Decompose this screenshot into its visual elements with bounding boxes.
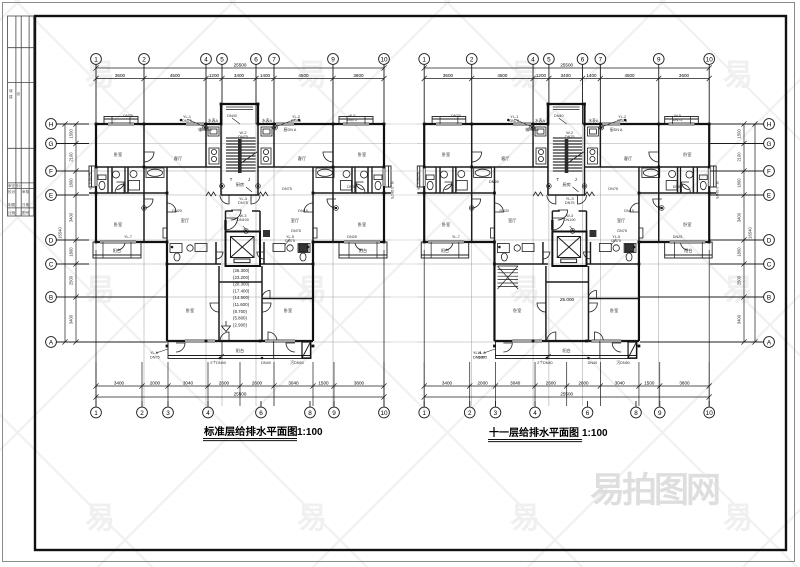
svg-text:(17.400): (17.400)	[233, 288, 250, 293]
svg-text:A: A	[49, 339, 54, 346]
svg-text:16540: 16540	[58, 227, 63, 239]
watermark glyphs	[85, 59, 753, 535]
level list	[222, 268, 250, 332]
svg-text:(26.300): (26.300)	[233, 268, 250, 273]
svg-text:F: F	[49, 168, 53, 175]
svg-text:B: B	[767, 294, 771, 301]
svg-text:十一层给排水平面图: 十一层给排水平面图	[489, 426, 579, 439]
svg-text:H: H	[49, 121, 54, 128]
svg-text:1:100: 1:100	[297, 427, 323, 438]
svg-text:16540: 16540	[748, 227, 753, 239]
svg-text:DN20: DN20	[489, 180, 499, 184]
svg-text:易: 易	[723, 59, 753, 92]
svg-text:2500: 2500	[69, 275, 74, 285]
svg-text:(5.800): (5.800)	[233, 316, 247, 321]
svg-text:1500: 1500	[737, 128, 742, 138]
svg-text:1500: 1500	[69, 128, 74, 138]
svg-text:(14.500): (14.500)	[233, 295, 250, 300]
svg-text:易: 易	[723, 502, 753, 535]
svg-text:(11.600): (11.600)	[233, 302, 250, 307]
svg-text:E: E	[49, 192, 53, 199]
svg-text:G: G	[49, 141, 54, 148]
svg-text:易: 易	[85, 502, 115, 535]
svg-text:H: H	[767, 121, 772, 128]
svg-text:易拍图网: 易拍图网	[590, 471, 719, 510]
svg-text:25.000: 25.000	[560, 297, 574, 302]
svg-text:比例: 比例	[8, 210, 16, 215]
svg-text:审核: 审核	[22, 189, 30, 194]
svg-text:3400: 3400	[737, 314, 742, 324]
left row bubbles	[46, 119, 167, 348]
svg-text:易: 易	[85, 274, 115, 307]
svg-text:3400: 3400	[69, 212, 74, 222]
svg-text:审定设计: 审定设计	[8, 183, 23, 188]
svg-text:2100: 2100	[69, 152, 74, 162]
svg-text:图号: 图号	[22, 210, 30, 215]
svg-text:B: B	[49, 294, 53, 301]
svg-text:(20.300): (20.300)	[233, 282, 250, 287]
svg-text:C: C	[49, 261, 54, 268]
svg-text:(23.200): (23.200)	[233, 275, 250, 280]
svg-text:(2.900): (2.900)	[233, 322, 247, 327]
svg-text:A: A	[767, 339, 772, 346]
svg-text:3400: 3400	[737, 212, 742, 222]
svg-text:2500: 2500	[737, 275, 742, 285]
title block strip	[8, 16, 34, 216]
gap grid stubs	[389, 124, 419, 342]
svg-text:城: 城	[9, 88, 13, 93]
svg-text:C: C	[767, 261, 772, 268]
left plan core	[89, 54, 394, 418]
svg-text:易: 易	[297, 502, 327, 535]
svg-text:1800: 1800	[737, 247, 742, 257]
svg-text:1800: 1800	[737, 178, 742, 188]
svg-text:E: E	[767, 192, 771, 199]
svg-text:易: 易	[85, 59, 115, 92]
svg-text:3400: 3400	[69, 314, 74, 324]
svg-text:制图: 制图	[8, 202, 16, 207]
svg-text:2100: 2100	[737, 152, 742, 162]
svg-text:设: 设	[17, 91, 21, 96]
svg-text:F: F	[767, 168, 771, 175]
svg-text:(8.700): (8.700)	[233, 309, 247, 314]
right plan core	[417, 54, 719, 418]
svg-text:1800: 1800	[69, 178, 74, 188]
right small stair	[498, 266, 519, 289]
right row bubbles	[640, 119, 774, 348]
svg-text:1800: 1800	[69, 247, 74, 257]
svg-text:日期: 日期	[22, 202, 30, 207]
svg-text:D: D	[767, 237, 772, 244]
right vertical dims	[741, 121, 757, 344]
svg-text:G: G	[767, 141, 772, 148]
svg-text:校对: 校对	[8, 189, 16, 194]
svg-text:标准层给排水平面图: 标准层给排水平面图	[203, 425, 298, 438]
svg-text:DN100: DN100	[473, 356, 485, 360]
svg-text:1:100: 1:100	[582, 428, 608, 439]
svg-text:易: 易	[510, 274, 540, 307]
svg-text:易: 易	[510, 502, 540, 535]
svg-text:D: D	[49, 237, 54, 244]
svg-text:YL-4: YL-4	[473, 351, 481, 355]
svg-text:建: 建	[9, 94, 13, 99]
left vertical dims	[62, 121, 78, 344]
